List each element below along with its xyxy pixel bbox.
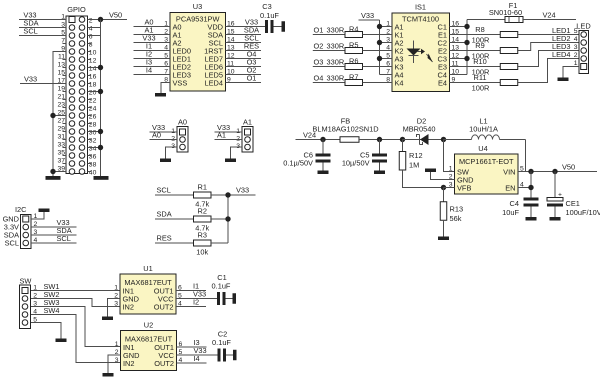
wire SDA to R2 [155,218,194,220]
svg-text:SCL: SCL [57,234,71,243]
junction CE1 [552,169,557,174]
wire V24 rail to FB [296,139,341,141]
wire V33 to GPIO pin 1 [19,19,66,21]
svg-text:2: 2 [89,18,93,25]
svg-text:20: 20 [89,90,97,97]
svg-text:34: 34 [89,146,97,153]
svg-text:A1: A1 [243,118,252,127]
wire U1 OUT2 I2 [176,306,206,308]
svg-text:LED: LED [576,22,590,31]
svg-text:SW4: SW4 [44,306,60,315]
capacitor C4 10uF [502,198,538,218]
resistor R9 [500,48,518,54]
wire SW3 to U2 IN1 [31,307,121,347]
junction VFB node [441,185,446,190]
svg-text:SN010-60: SN010-60 [489,8,522,17]
resistor R5 [345,48,363,54]
svg-text:R13: R13 [450,205,464,214]
svg-text:LED4: LED4 [552,50,571,59]
svg-text:26: 26 [89,114,97,121]
wire R7 to IS1 K4 [363,82,393,84]
svg-text:C4: C4 [510,199,519,208]
svg-text:I4: I4 [194,354,200,363]
wire U2 OUT1 I3 [177,346,207,348]
wire R10 to LED pin 3 [518,51,579,67]
svg-text:VSS: VSS [173,79,188,88]
svg-text:IN2: IN2 [123,359,135,368]
wire SDA to GPIO pin 3 [19,27,66,29]
junction GPIO pin 34 [98,145,103,150]
svg-text:U3: U3 [193,2,202,11]
junction IS1 C2 [464,40,469,45]
svg-text:R2: R2 [198,207,207,216]
svg-text:E4: E4 [438,79,447,88]
junction VIN/C4 [528,169,533,174]
U3 left input wires [134,27,171,75]
ground C3 [282,21,286,32]
svg-text:K4: K4 [395,79,404,88]
svg-text:R10: R10 [473,57,487,66]
wire R1 to V33 bus [211,194,228,196]
wire R11 to LED pin 2 [518,59,579,83]
svg-text:0.1uF: 0.1uF [212,282,231,291]
svg-text:A0: A0 [152,131,161,140]
svg-text:28: 28 [89,122,97,129]
svg-text:BLM18AG102SN1D: BLM18AG102SN1D [312,125,378,134]
ground GPIO right [94,176,109,180]
junction GPIO pin 39 [50,169,55,174]
svg-text:V50: V50 [562,162,575,171]
ground U3 VSS [155,93,166,97]
wire A1 pin 3 to ground [231,147,243,159]
wire RES to R3 [155,242,194,244]
op IC U1 MAX6817EUT [120,264,176,314]
wire L1 to VIN [525,140,527,172]
svg-text:1: 1 [115,341,119,348]
connector SW (5-pin) [20,277,32,329]
op IC U3 PCA9531PW [170,2,226,91]
svg-text:R4: R4 [349,25,358,34]
wire SW1 to U1 IN1 [31,290,120,292]
svg-text:R8: R8 [475,25,484,34]
svg-text:10k: 10k [196,248,208,257]
svg-text:U4: U4 [478,144,487,153]
svg-text:R11: R11 [473,73,486,82]
svg-text:V24: V24 [543,10,556,19]
svg-text:0.1µ/50V: 0.1µ/50V [283,159,313,168]
ground CE1 [550,217,561,221]
connector GPIO (40-pin header) [66,5,88,174]
wire FB to D2 node [359,139,403,141]
svg-text:SW: SW [20,277,32,286]
svg-text:14: 14 [89,66,97,73]
svg-text:1: 1 [449,166,453,173]
resistor R7 [345,80,363,86]
wire R8 to LED pin 5 [518,34,579,36]
svg-text:1: 1 [114,285,118,292]
svg-text:330R: 330R [327,58,345,67]
svg-text:32: 32 [89,138,97,145]
wire I2C pin 2 V33 [31,226,77,228]
svg-text:A0: A0 [178,118,187,127]
resistor R1 [194,192,212,198]
svg-text:MCP1661T-EOT: MCP1661T-EOT [459,157,514,166]
wire V33 to GPIO pin 17 [20,83,66,85]
capacitor C3 0.1uF [260,2,281,33]
ground I2C [39,209,50,213]
wire SCL to R1 [155,194,194,196]
junction C6 [320,137,325,142]
wire U2 OUT2 I4 [177,362,207,364]
ground U2 [103,373,114,377]
svg-text:100uF/10V: 100uF/10V [566,208,600,217]
wire U2 VCC to V33/C2 [177,354,218,356]
junction GPIO pin 25 [50,113,55,118]
IS1 optocoupler LED symbol [407,41,426,64]
ground A0 [160,159,171,163]
svg-text:38: 38 [89,162,97,169]
svg-text:O2: O2 [314,42,324,51]
capacitor C6 0.1u/50V [283,140,330,171]
svg-text:OUT2: OUT2 [154,303,174,312]
svg-text:16: 16 [89,74,97,81]
svg-text:36: 36 [89,154,97,161]
junction GPIO pin 14 [98,65,103,70]
wire IS1 E3 to R10 [450,66,501,68]
U2 pin numbers [115,341,183,364]
op IC U4 MCP1661T-EOT [455,144,519,194]
svg-text:V33: V33 [361,11,374,20]
wire SW2 to U1 IN2 [31,299,120,307]
svg-text:LED4: LED4 [205,79,224,88]
svg-text:I4: I4 [146,66,152,75]
junction GPIO pin 20 [98,89,103,94]
wire A1 to A1 pin 2 [215,139,243,141]
svg-text:100R: 100R [472,83,490,92]
U3 pin numbers [164,21,235,84]
resistor R13 56k [440,188,463,237]
svg-text:EN: EN [505,184,515,193]
capacitor CE1 100uF/10V electrolytic [547,172,600,218]
SW pin numbers [33,285,37,324]
wire F1 to V24 [523,19,576,21]
wire U4 GND to ground [431,172,455,180]
ground GPIO left [46,176,61,180]
svg-text:VIN: VIN [503,168,515,177]
junction IS1 C1 [464,24,469,29]
svg-text:3: 3 [574,44,578,51]
wire R9 to LED pin 4 [518,43,579,51]
svg-text:OUT2: OUT2 [154,359,174,368]
ground C4 [526,217,537,221]
wire U2 GND to ground [108,355,121,373]
GPIO pin numbers [57,14,96,177]
ground U1 [102,317,113,321]
svg-text:3: 3 [115,357,119,364]
svg-text:10: 10 [89,50,97,57]
svg-text:IS1: IS1 [415,3,426,12]
svg-text:I2C: I2C [15,205,27,214]
I2C outside labels [3,215,20,248]
net labels U3 left [142,18,155,75]
wire I2C pin 4 SCL [31,242,77,244]
wire IS1 E1 to R8 [450,34,501,36]
connector A0 (3-pin jumper) [177,118,188,153]
wire O4 to R7 [313,82,345,84]
svg-text:VFB: VFB [457,184,471,193]
svg-text:330R: 330R [327,74,345,83]
svg-text:0.1uF: 0.1uF [212,338,231,347]
A1 pin numbers [236,128,240,150]
U4 pin numbers [449,166,524,189]
resistor R10 [500,64,518,70]
wire GPIO right ground bus (pins 4,6,14,20,30,34) [88,20,101,177]
wire V33 to A0 pin 1 [150,131,178,133]
junction R2/V33 [225,216,230,221]
wire A0 pin 3 to ground [166,147,178,159]
svg-text:O1: O1 [314,26,324,35]
svg-text:IN2: IN2 [123,303,135,312]
svg-text:R5: R5 [349,41,358,50]
svg-text:SDA: SDA [157,210,172,219]
ground U4 [425,169,436,173]
svg-text:8: 8 [89,42,93,49]
wire LED pin 1 to ground [563,67,579,78]
wire IS1 E4 to R11 [450,82,501,84]
junction R12/D2 [400,137,405,142]
wire SCL to GPIO pin 5 [19,35,66,37]
svg-text:U2: U2 [144,321,153,330]
svg-text:CE1: CE1 [566,199,580,208]
svg-text:30: 30 [89,130,97,137]
svg-text:C3: C3 [262,2,271,11]
svg-text:18: 18 [89,82,97,89]
U1 pin numbers [114,285,182,308]
diode D2 MBR0540 (schottky) [403,116,444,145]
ferrite bead FB BLM18AG102SN1D [312,116,378,142]
wire O1 to R4 [313,34,345,36]
IS1 pin numbers [386,21,459,84]
svg-text:24: 24 [89,106,97,113]
resistor R11 [500,80,518,86]
wire U1 GND to ground [108,299,121,317]
wire SW node down to U4 pin 1 [444,140,455,172]
wire U3 VDD to C3 [226,26,266,28]
svg-text:12: 12 [89,58,97,65]
svg-text:TCMT4100: TCMT4100 [402,15,439,24]
svg-text:4: 4 [574,36,578,43]
svg-text:22: 22 [89,98,97,105]
svg-text:MBR0540: MBR0540 [403,125,436,134]
svg-text:330R: 330R [327,26,345,35]
svg-text:56k: 56k [450,214,462,223]
svg-text:R7: R7 [349,73,358,82]
wire R12 to VFB node [403,170,444,188]
junction IS1 A1 [377,24,382,29]
svg-text:3: 3 [114,301,118,308]
wire U4 EN tied to VIN [518,172,531,198]
ground C2 [233,350,237,361]
svg-text:40: 40 [89,170,97,177]
svg-text:10uF: 10uF [502,208,519,217]
resistor R3 [194,240,212,246]
svg-text:RES: RES [157,234,172,243]
svg-text:O1: O1 [247,74,257,83]
svg-text:2: 2 [574,52,578,59]
wire V33 to A1 pin 1 [215,131,243,133]
ground C6 [318,171,329,175]
LED pin numbers [574,28,578,67]
ground A1 [225,159,236,163]
svg-text:O3: O3 [314,58,324,67]
wire I2C pin 3 SDA [31,234,77,236]
connector LED (5-pin) [576,22,590,74]
wire R6 to IS1 K3 [363,66,393,68]
ground LED [558,78,569,82]
svg-text:V33: V33 [236,186,249,195]
wire R4 to IS1 K1 [363,34,393,36]
svg-text:I2: I2 [193,298,199,307]
wire IS1 collector bus (C1-C4) [450,20,506,75]
svg-text:V50: V50 [109,11,122,20]
svg-text:A1: A1 [217,131,226,140]
GPIO unconnected pin stubs [63,44,92,172]
svg-text:10uH/1A: 10uH/1A [469,125,498,134]
ground SW [56,339,67,343]
svg-text:O4: O4 [314,74,324,83]
svg-text:V33: V33 [24,75,37,84]
svg-text:4: 4 [89,26,93,33]
resistor R2 [194,216,212,222]
IS1 phototransistor symbol [427,54,433,63]
svg-text:R12: R12 [409,151,423,160]
ground C5 [374,171,385,175]
junction C5 [377,137,382,142]
wire GPIO pin 2 to V50 [88,19,128,21]
svg-text:R9: R9 [475,41,484,50]
wire U1 OUT1 I1 [176,290,206,292]
wire O2 to R5 [313,50,345,52]
fuse F1 SN010-60 [489,1,523,23]
svg-text:5: 5 [574,28,578,35]
capacitor C2 0.1uF [212,330,233,362]
inductor L1 10uH/1A [444,116,526,139]
ground R13 [438,237,449,241]
svg-text:SCL: SCL [157,186,171,195]
op IC IS1 TCMT4100 optocoupler [392,3,450,92]
wire R2 to V33 bus [211,218,228,220]
wire SW pin 5 to ground [31,323,61,339]
svg-text:R1: R1 [198,183,207,192]
capacitor C5 10u/50V [342,140,387,171]
wire R3 to V33 bus [211,242,228,244]
junction SW/L1 node [441,137,446,142]
junction IS1 C3 [464,56,469,61]
svg-text:GPIO: GPIO [67,5,86,14]
wire O3 to R6 [313,66,345,68]
junction GPIO pin 30 [98,129,103,134]
svg-text:330R: 330R [327,42,345,51]
wire VFB node to U4 pin 3 [444,187,455,189]
U3 right wires [226,35,262,83]
op IC U2 MAX6817EUT [121,321,177,371]
wire V33 pull-up bus [228,195,256,243]
ground C1 [233,293,237,304]
wire GPIO left ground bus (pins 9,25,39) [53,52,66,177]
svg-text:6: 6 [89,34,93,41]
junction R1/V33 [225,192,230,197]
junction V50 at GPIO pin 2 [98,17,103,22]
svg-text:0.1uF: 0.1uF [260,11,279,20]
A0 pin numbers [171,128,175,150]
svg-text:R6: R6 [349,57,358,66]
svg-text:SCL: SCL [5,239,19,248]
svg-text:SCL: SCL [23,27,37,36]
wire R5 to IS1 K2 [363,50,393,52]
junction IS1 A2 [377,40,382,45]
connector I2C (4-pin) [15,205,31,249]
resistor R12 1M [399,140,422,171]
wire U3 VSS to ground [161,83,170,94]
junction EN [528,185,533,190]
I2C pin numbers [34,213,38,244]
svg-text:U1: U1 [143,264,152,273]
svg-text:1M: 1M [409,161,419,170]
wire I2C pin 1 to ground [31,212,44,219]
wire IS1 E2 to R9 [450,50,501,52]
wire SW4 to U2 IN2 [31,315,121,363]
resistor R4 [345,32,363,38]
svg-text:10µ/50V: 10µ/50V [342,159,370,168]
connector A1 (3-pin jumper) [242,118,253,153]
wire U1 VCC to V33/C1 [176,298,217,300]
junction IS1 A3 [377,56,382,61]
resistor R6 [345,64,363,70]
svg-text:R3: R3 [198,231,207,240]
wire V33 to IS1 anodes bus [359,20,393,75]
net labels U3 right [244,18,259,83]
capacitor C1 0.1uF [212,273,233,305]
resistor R8 [500,32,518,38]
wire A0 to A0 pin 2 [150,139,178,141]
wire U4 VIN to V50 [518,171,597,173]
